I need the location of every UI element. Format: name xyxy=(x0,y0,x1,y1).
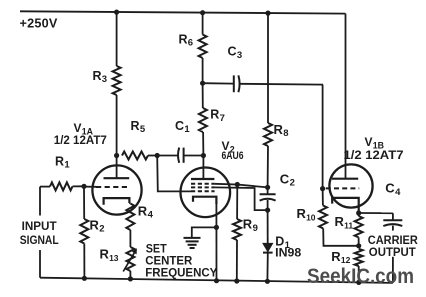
svg-text:SeekIC.com: SeekIC.com xyxy=(307,264,414,288)
wire R4 to R13 xyxy=(129,230,131,247)
tube V2 envelope xyxy=(181,168,231,218)
resistor R4 xyxy=(126,204,134,231)
node junction R5 / C1 / V2 grid drop xyxy=(155,153,160,158)
wire carrier output drop xyxy=(392,257,394,283)
node junction C1 / R7 / V2 plate xyxy=(201,153,206,158)
wire +250V top supply rail xyxy=(20,11,346,13)
wire R4 top lead xyxy=(128,202,131,205)
tube V1A plate xyxy=(104,177,130,179)
wire D1 bottom lead xyxy=(266,253,268,282)
wire R7 bottom lead xyxy=(202,132,204,156)
svg-text:6AU6: 6AU6 xyxy=(222,150,244,162)
diode D1 xyxy=(263,243,273,251)
node junction top rail / R3 branch xyxy=(114,10,119,15)
resistor R9 xyxy=(233,219,241,240)
resistor R6 xyxy=(199,35,207,59)
resistor R10 xyxy=(319,206,327,229)
wire R6 bottom lead xyxy=(202,58,204,83)
node junction cathode / R11 / C4 line xyxy=(356,210,361,215)
tube V2 grid G2 row (dashed) xyxy=(191,183,215,185)
node junction R11 / R12 / R10 line xyxy=(356,243,361,248)
wire V1A grid lead xyxy=(84,186,96,188)
node junction G2 / R9 xyxy=(235,182,240,187)
wire R7 top lead xyxy=(202,83,204,108)
capacitor C1 xyxy=(178,148,179,163)
node junction R5 left / V1A plate line xyxy=(114,153,119,158)
node junction C3 drop / V1B grid / R10 xyxy=(320,186,325,191)
wire top rail right corner drop to V1B plate xyxy=(345,14,347,179)
capacitor C2 xyxy=(267,187,269,194)
ground symbol xyxy=(184,237,201,239)
wire cathode to C4 xyxy=(359,212,393,214)
tube V2 plate xyxy=(191,178,214,180)
node junction V2 cathode / rail xyxy=(214,278,219,283)
node junction R1 / R2 / V1A grid xyxy=(81,184,86,189)
tube V1B envelope xyxy=(329,164,372,207)
tube V2 grid G3 row (dashed) xyxy=(191,186,215,188)
resistor R7 xyxy=(199,108,207,132)
wire R1 to grid node xyxy=(73,185,85,187)
wire V2 control-grid drop from C1 node xyxy=(157,156,191,192)
wire R3 branch upper xyxy=(116,12,118,66)
tube V1A cathode xyxy=(104,198,130,205)
wire V2 cathode to ground rail xyxy=(215,204,217,281)
resistor R3 xyxy=(113,66,121,95)
svg-text:1/2 12AT7: 1/2 12AT7 xyxy=(54,133,107,147)
tube V2 control grid row (dashed) xyxy=(191,190,215,192)
resistor R11 xyxy=(355,216,363,237)
tube V1B grid (dashed) xyxy=(326,187,359,189)
node junction R2 / rail xyxy=(82,276,87,281)
svg-text:INPUT: INPUT xyxy=(22,219,58,233)
node junction D1 / rail xyxy=(265,279,270,284)
wire C1 right lead xyxy=(184,155,204,157)
wire V2 suppressor line xyxy=(215,187,268,210)
wire R10 top lead xyxy=(322,189,324,206)
wire R6 top lead xyxy=(202,13,204,35)
tube V1A envelope xyxy=(92,165,141,214)
wire D1 top lead xyxy=(267,210,269,243)
resistor R8 xyxy=(264,123,272,146)
node junction R8 / G2 line / C2 xyxy=(265,185,270,190)
wire C3 right lead to corner xyxy=(239,83,323,86)
wire R13 bottom lead xyxy=(129,271,131,279)
wire V2 screen grid line xyxy=(215,184,268,188)
wire input to R1 xyxy=(40,186,50,188)
wire R11 bottom lead xyxy=(358,237,360,245)
wire R3 to V1A plate xyxy=(116,95,118,178)
capacitor C4 xyxy=(392,213,394,220)
wire R11 top lead xyxy=(358,213,360,216)
tube V1B cathode xyxy=(332,198,359,213)
tube V1B plate xyxy=(332,178,358,180)
wire R8 branch upper xyxy=(267,13,269,123)
node junction R9 / rail xyxy=(234,278,239,283)
svg-text:OUTPUT: OUTPUT xyxy=(369,245,417,259)
wire R2 bottom lead xyxy=(83,244,85,279)
wire ground return rail xyxy=(40,278,393,283)
node junction C2 / suppressor / D1 xyxy=(265,208,270,213)
wire R10 bottom corner to R11/R12 node xyxy=(323,228,359,246)
resistor R12 xyxy=(355,249,363,266)
potentiometer R13 arrow xyxy=(123,250,136,272)
node junction R6 / R7 / C3 xyxy=(200,81,205,86)
resistor R1 xyxy=(50,182,73,190)
wire R5 right to node xyxy=(148,155,157,157)
wire C3 left lead xyxy=(203,82,233,84)
svg-text:SIGNAL: SIGNAL xyxy=(20,233,59,247)
wire R9 bottom lead xyxy=(236,240,238,281)
svg-text:IN98: IN98 xyxy=(275,248,302,260)
svg-text:1/2 12AT7: 1/2 12AT7 xyxy=(344,148,404,162)
resistor R2 xyxy=(80,219,88,244)
wire C1 left lead xyxy=(157,155,178,157)
wire C3 line drop to V1B grid xyxy=(322,85,324,189)
potentiometer R13 xyxy=(126,247,134,271)
svg-text:+250V: +250V xyxy=(20,15,58,30)
node junction top rail / R8 branch xyxy=(265,11,270,16)
wire R8 bottom lead xyxy=(267,146,269,187)
svg-text:FREQUENCY: FREQUENCY xyxy=(145,265,217,279)
wire R9 top lead xyxy=(236,185,238,220)
tube V1A grid (dashed) xyxy=(96,186,130,188)
capacitor C3 xyxy=(233,75,235,92)
wire R2 top lead xyxy=(83,186,85,219)
node junction R13 / ground rail xyxy=(128,276,133,281)
node junction cathode / ground branch xyxy=(214,225,219,230)
wire input line vertical xyxy=(39,187,41,278)
node junction R12 / ground rail xyxy=(356,280,361,285)
node junction top rail / R6 branch xyxy=(200,10,205,15)
wire R12 bottom lead xyxy=(358,266,360,282)
wire ground branch xyxy=(192,227,217,237)
tube V2 cathode xyxy=(193,197,216,204)
resistor R5 xyxy=(122,152,148,160)
